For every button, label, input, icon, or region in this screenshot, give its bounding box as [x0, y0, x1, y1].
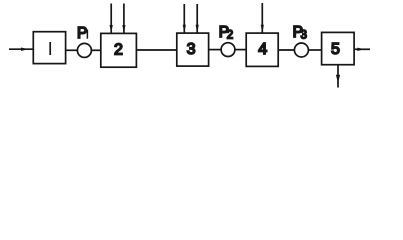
wire: product line out of box 5 right [354, 48, 370, 50]
svg-text:5: 5 [331, 41, 340, 58]
wire: box 2 to box 3 [136, 49, 176, 51]
wire: feed line into box 1 [9, 48, 33, 50]
wire: box 4 to P3 circle [278, 49, 294, 51]
wire: box 3 to P2 circle [209, 49, 222, 51]
wire: purge line down from box 5 [337, 65, 339, 88]
pump/valve circle P1 [77, 43, 91, 57]
svg-text:2: 2 [114, 42, 123, 59]
wire: box 1 to P1 circle [66, 49, 78, 51]
feed arrow 2 into top of block 2 [123, 4, 125, 34]
wire: P1 circle to box 2 [91, 49, 100, 51]
wire: P3 circle to box 5 [308, 49, 321, 51]
svg-text:3: 3 [187, 41, 196, 58]
wire: P2 circle to box 4 [235, 49, 246, 51]
svg-text:4: 4 [258, 41, 267, 58]
feed arrow 1 into top of block 3 [183, 4, 185, 33]
block 4 [246, 33, 278, 66]
numeral 1 in block 1 [49, 42, 51, 55]
arrowhead on product line [357, 48, 364, 51]
subscript 1 of label P1 (drawn bar) [86, 30, 88, 39]
feed arrow into top of block 4 [261, 3, 263, 33]
svg-text:P: P [77, 25, 87, 42]
pump/valve circle P2 [221, 43, 235, 57]
arrowhead on feed line into box 1 [21, 48, 29, 51]
block 3 [177, 33, 209, 66]
arrowhead on purge line [336, 75, 340, 83]
feed arrow 2 into top of block 3 [196, 4, 198, 33]
svg-text:3: 3 [301, 29, 307, 41]
block 5 [322, 32, 355, 64]
feed arrow 1 into top of block 2 [110, 4, 112, 34]
block 2 [101, 33, 137, 67]
pump/valve circle P3 [294, 43, 308, 57]
svg-text:2: 2 [227, 29, 233, 41]
block 1 [33, 32, 65, 64]
